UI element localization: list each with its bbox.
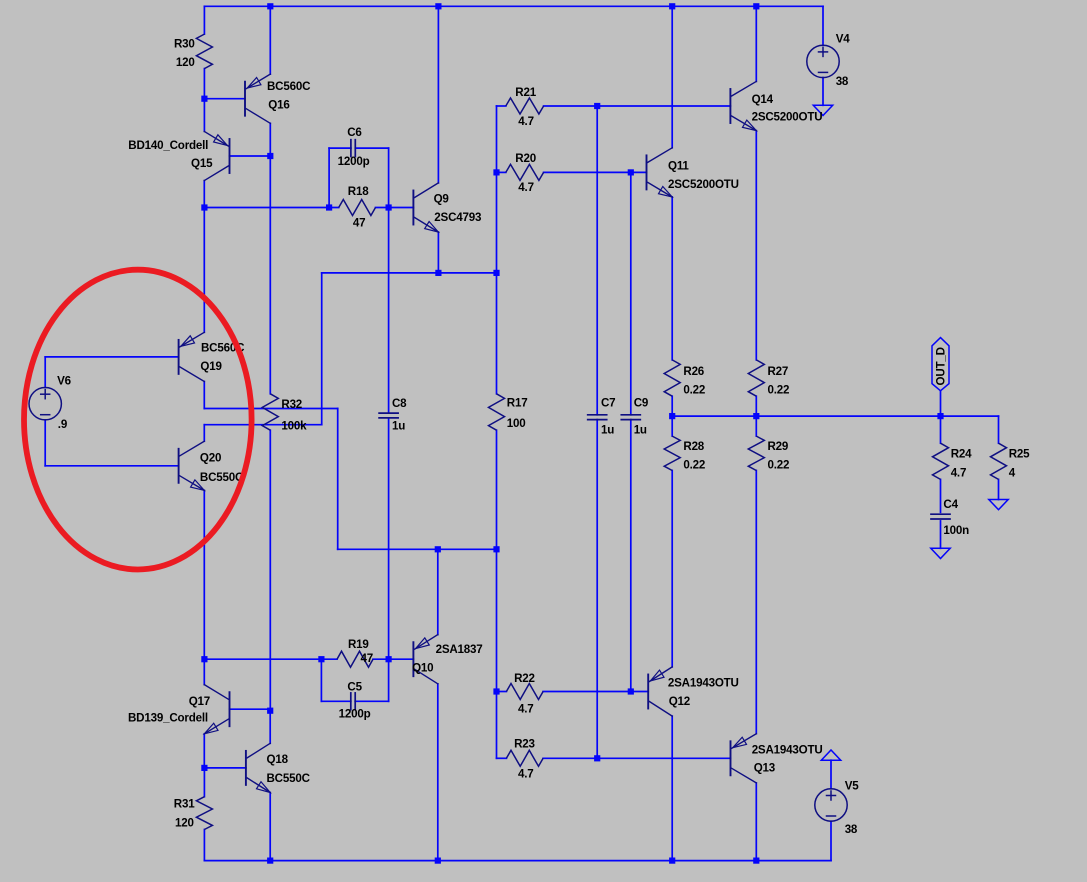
wire x497 vertical upper <box>496 106 498 394</box>
node Q16 collector / Q15 base <box>267 153 273 159</box>
wire Q18 emitter <box>269 793 271 861</box>
svg-text:38: 38 <box>836 75 849 88</box>
wire Q14 collector <box>755 6 757 81</box>
svg-text:2SA1837: 2SA1837 <box>436 643 483 656</box>
wire Q16 collector <box>269 123 271 156</box>
wire Q20 collector <box>203 425 205 442</box>
resistor R32 <box>262 394 278 430</box>
svg-text:1u: 1u <box>392 419 405 432</box>
wire node y659 left <box>204 658 337 660</box>
transistor Q17 (NPN BD139_Cordell) <box>204 685 229 734</box>
svg-text:Q10: Q10 <box>412 662 433 675</box>
svg-text:1u: 1u <box>601 424 614 437</box>
node R32 / Q17 base / Q18 collector <box>267 708 273 714</box>
node bottom rail / Q18 emitter <box>267 858 273 864</box>
resistor R31 <box>196 797 212 830</box>
ground below V4 <box>813 105 832 115</box>
node R27-R29 / output <box>753 413 759 419</box>
svg-text:C5: C5 <box>347 680 362 693</box>
transistor Q20 (NPN BC550C) <box>179 441 205 490</box>
node Q17 emitter / Q18 base / R31 <box>201 765 207 771</box>
capacitor C4 <box>931 513 950 515</box>
wire Q17 collector <box>203 659 205 684</box>
wire V5 bottom <box>830 821 832 860</box>
svg-text:100: 100 <box>507 417 526 430</box>
svg-text:1200p: 1200p <box>338 155 370 168</box>
wire R29 to Q13 collector <box>755 471 757 734</box>
wire Q9 emitter <box>437 232 439 273</box>
wire x322 vertical <box>321 273 323 425</box>
transistor Q11 (NPN 2SC5200OTU) <box>647 148 673 197</box>
svg-text:BC550C: BC550C <box>267 772 311 785</box>
svg-text:4.7: 4.7 <box>518 703 534 716</box>
svg-text:OUT_D: OUT_D <box>934 347 947 385</box>
svg-text:4.7: 4.7 <box>518 181 534 194</box>
svg-text:C4: C4 <box>943 498 958 511</box>
wire C6 right vertical <box>388 148 390 207</box>
resistor R24 <box>933 443 949 479</box>
wire Q17 emitter <box>203 734 205 768</box>
wire Q15 collector <box>203 181 205 208</box>
wire V5 top <box>830 760 832 789</box>
capacitor C7 <box>588 414 607 416</box>
wire C5 left vertical <box>320 659 322 701</box>
wire top rail +38V <box>204 5 823 7</box>
node bottom rail / Q13 emitter <box>753 858 759 864</box>
resistor R22 <box>506 684 543 700</box>
wire Q17 base <box>230 708 271 710</box>
node R19 / C5 left <box>318 656 324 662</box>
svg-text:V6: V6 <box>57 374 72 387</box>
net flag OUT_D <box>932 338 949 391</box>
ground above V5 (flipped) <box>821 750 840 760</box>
svg-text:Q11: Q11 <box>668 159 689 172</box>
wire C6 left vertical <box>328 148 330 207</box>
svg-text:0.22: 0.22 <box>768 384 790 397</box>
wire Q9 collector <box>437 6 439 183</box>
wire node y659 right <box>373 658 413 660</box>
svg-text:BD139_Cordell: BD139_Cordell <box>128 711 208 724</box>
svg-text:R30: R30 <box>174 37 195 50</box>
wire R24 to C4 <box>940 479 942 512</box>
svg-text:0.22: 0.22 <box>683 384 705 397</box>
svg-text:Q12: Q12 <box>669 695 690 708</box>
wire node y273 <box>322 272 497 274</box>
wire C9 top <box>630 172 632 414</box>
wire R30 top <box>203 6 205 34</box>
wire C4 to ground <box>940 521 942 548</box>
svg-text:Q14: Q14 <box>752 93 774 106</box>
wire C6 top left <box>329 147 351 149</box>
node top rail / Q14 collector <box>753 3 759 9</box>
node Q15 collector / main <box>201 204 207 210</box>
svg-text:C7: C7 <box>601 396 615 409</box>
transistor Q12 (PNP 2SA1943OTU) <box>648 667 672 716</box>
svg-text:Q13: Q13 <box>754 762 776 775</box>
wire V4 bottom to ground <box>822 78 824 106</box>
resistor R18 <box>339 200 376 216</box>
wire R20 left <box>497 171 506 173</box>
wire Q19 emitter <box>203 208 205 333</box>
svg-text:R21: R21 <box>515 86 536 99</box>
wire R27-R29 node <box>755 396 757 436</box>
transistor Q9 (NPN 2SC4793) <box>413 183 438 232</box>
node R19 / C5 / C8 / Q10 base <box>386 656 392 662</box>
node y549 / R17 <box>493 546 499 552</box>
wire Q12 emitter <box>671 716 673 861</box>
wire R31 top <box>203 768 205 797</box>
resistor R23 <box>506 750 543 766</box>
wire Q13 emitter <box>755 783 757 861</box>
node OUT_D / R24 <box>937 413 943 419</box>
wire R20 right to Q11 base <box>544 171 647 173</box>
node R21 / C7 <box>594 103 600 109</box>
node bottom rail / Q10 collector <box>435 858 441 864</box>
capacitor C9 <box>621 414 640 416</box>
svg-text:120: 120 <box>175 816 194 829</box>
svg-text:0.22: 0.22 <box>683 459 705 472</box>
svg-text:R22: R22 <box>514 672 535 685</box>
wire R32 bottom <box>269 430 271 711</box>
svg-text:Q15: Q15 <box>191 157 213 170</box>
transistor Q10 (PNP 2SA1837) <box>413 635 437 684</box>
wire Q14 emitter <box>755 131 757 360</box>
svg-text:2SC5200OTU: 2SC5200OTU <box>668 178 739 191</box>
wire R22 left <box>497 691 507 693</box>
capacitor C5 <box>350 693 352 710</box>
svg-text:.9: .9 <box>58 418 68 431</box>
wire x497 vertical lower <box>496 430 498 758</box>
wire C6 top right <box>355 147 388 149</box>
resistor R21 <box>506 98 544 114</box>
svg-text:R20: R20 <box>515 152 536 165</box>
voltage source V6 <box>29 388 61 420</box>
svg-text:R24: R24 <box>951 448 972 461</box>
node R23 / C7 / Q13 base <box>594 755 600 761</box>
svg-text:R29: R29 <box>768 440 789 453</box>
node top rail / Q16 emitter <box>267 3 273 9</box>
wire Q19 collector rail y408 <box>204 408 337 410</box>
svg-text:2SC4793: 2SC4793 <box>434 211 482 224</box>
wire Q11 emitter <box>671 197 673 360</box>
ground below C4 <box>931 548 950 558</box>
transistor Q13 (PNP 2SA1943OTU) <box>731 734 757 783</box>
svg-text:BD140_Cordell: BD140_Cordell <box>128 139 208 152</box>
svg-text:R31: R31 <box>174 798 195 811</box>
svg-text:C8: C8 <box>392 397 407 410</box>
resistor R27 <box>748 360 764 396</box>
wire R21 right to Q14 base <box>544 105 731 107</box>
resistor R25 <box>991 443 1007 479</box>
node C6 / R18 right / Q9 base <box>386 204 392 210</box>
svg-text:R26: R26 <box>683 365 704 378</box>
node R20 / x497 <box>493 169 499 175</box>
svg-text:R23: R23 <box>514 738 535 751</box>
wire R23 left <box>497 757 507 759</box>
svg-text:47: 47 <box>361 652 374 665</box>
wire x338 vertical <box>337 409 339 550</box>
svg-text:C9: C9 <box>634 396 649 409</box>
svg-text:R27: R27 <box>768 365 789 378</box>
svg-text:2SA1943OTU: 2SA1943OTU <box>668 677 739 690</box>
svg-text:0.22: 0.22 <box>768 459 790 472</box>
svg-text:Q19: Q19 <box>200 360 222 373</box>
svg-text:100n: 100n <box>943 524 969 537</box>
svg-text:V4: V4 <box>836 33 851 46</box>
node R20 / C9 <box>628 169 634 175</box>
resistor R30 <box>196 34 212 69</box>
wire C7 top <box>596 106 598 415</box>
transistor Q16 (PNP BC560C) <box>245 74 270 123</box>
wire Q18 base <box>204 767 246 769</box>
wire Q16 emitter <box>269 6 271 74</box>
svg-text:R17: R17 <box>507 396 528 409</box>
node Q9 emitter / y273 <box>435 270 441 276</box>
transistor Q18 (NPN BC550C) <box>246 743 270 792</box>
svg-text:BC560C: BC560C <box>267 80 311 93</box>
svg-text:R28: R28 <box>683 440 704 453</box>
svg-text:120: 120 <box>176 56 195 69</box>
ground below R25 <box>989 500 1008 510</box>
svg-text:4.7: 4.7 <box>951 467 967 480</box>
svg-text:Q9: Q9 <box>434 193 450 206</box>
node R22 / C9 / Q12 base <box>628 688 634 694</box>
wire V6 plus vertical <box>44 357 46 388</box>
wire R32 top <box>269 156 271 394</box>
wire Q10 collector <box>437 684 439 861</box>
wire R28 to Q12 collector <box>671 471 673 667</box>
wire V6 minus vertical <box>44 420 46 466</box>
wire R25 top <box>998 416 1000 443</box>
wire bottom rail -38V <box>204 860 831 862</box>
resistor R20 <box>506 164 544 180</box>
resistor R17 <box>489 394 505 430</box>
wire V4 top stub <box>822 6 824 45</box>
wire node y549 <box>338 548 497 550</box>
red annotation ellipse around V6/Q19/Q20 input stage <box>24 270 252 570</box>
wire Q20 emitter <box>203 490 205 659</box>
wire R31 bottom <box>203 830 205 861</box>
svg-text:4.7: 4.7 <box>518 115 534 128</box>
svg-text:1200p: 1200p <box>339 708 371 721</box>
wire C5 bottom left <box>321 700 350 702</box>
wire Q16 base <box>204 98 245 100</box>
svg-text:R19: R19 <box>348 638 369 651</box>
svg-text:47: 47 <box>353 217 366 230</box>
wire Q11 collector <box>671 6 673 148</box>
wire Q19 collector <box>203 382 205 409</box>
svg-text:2SC5200OTU: 2SC5200OTU <box>752 111 823 124</box>
wire R30 bottom to Q15 emitter <box>203 69 205 132</box>
wire main node y207 right <box>376 207 414 209</box>
svg-text:BC550C: BC550C <box>200 471 244 484</box>
node Q20 emitter / R19 <box>201 656 207 662</box>
svg-text:2SA1943OTU: 2SA1943OTU <box>752 743 823 756</box>
node top rail / Q9 collector <box>435 3 441 9</box>
node C6 / R18 left <box>326 204 332 210</box>
resistor R19 <box>337 651 373 667</box>
svg-text:4: 4 <box>1009 467 1016 480</box>
svg-text:1u: 1u <box>634 424 647 437</box>
capacitor C6 <box>350 140 352 157</box>
resistor R26 <box>664 360 680 396</box>
svg-text:100k: 100k <box>281 420 307 433</box>
capacitor C8 <box>379 412 398 414</box>
wire main node y207 left <box>204 207 338 209</box>
wire OUT_D stub <box>940 391 942 416</box>
wire R26-R28 node <box>671 396 673 436</box>
wire R24 top <box>940 416 942 443</box>
wire R21 left <box>497 105 506 107</box>
node R22 / x497 <box>493 688 499 694</box>
node R26-R28 / output <box>669 413 675 419</box>
wire C8 bottom <box>388 418 390 659</box>
voltage source V4 <box>807 45 839 77</box>
wire C5 bottom right <box>355 700 388 702</box>
node top rail / Q11 collector <box>669 3 675 9</box>
svg-text:R25: R25 <box>1009 448 1030 461</box>
svg-text:Q16: Q16 <box>268 99 290 112</box>
wire Q15 base <box>230 155 271 157</box>
node bottom rail / Q12 emitter <box>669 858 675 864</box>
voltage source V5 <box>815 789 847 821</box>
wire Q10 emitter <box>437 549 439 634</box>
svg-text:38: 38 <box>845 823 858 836</box>
node y549 / Q10 emitter <box>435 546 441 552</box>
transistor Q19 (PNP BC560C) <box>179 332 205 381</box>
wire output node y416 <box>672 415 998 417</box>
svg-text:C6: C6 <box>347 126 362 139</box>
resistor R28 <box>664 436 680 470</box>
svg-text:4.7: 4.7 <box>518 768 534 781</box>
wire R23 right to Q13 base <box>543 757 730 759</box>
svg-text:Q20: Q20 <box>200 452 221 465</box>
node y273 / x497 <box>493 270 499 276</box>
transistor Q14 (NPN 2SC5200OTU) <box>730 81 756 130</box>
svg-text:Q17: Q17 <box>189 695 210 708</box>
svg-text:Q18: Q18 <box>267 753 289 766</box>
wire R22 right to Q12 base <box>543 691 648 693</box>
wire C8 top <box>388 208 390 414</box>
wire C9 bottom <box>630 420 632 692</box>
wire Q20 base from V6 <box>45 465 178 467</box>
svg-text:V5: V5 <box>845 780 860 793</box>
wire C7 bottom <box>596 420 598 759</box>
svg-text:R18: R18 <box>348 185 369 198</box>
wire Q19 base from V6 <box>45 356 178 358</box>
svg-text:R32: R32 <box>281 398 302 411</box>
wire C5 right vertical <box>388 659 390 701</box>
wire Q18 collector <box>269 711 271 744</box>
resistor R29 <box>748 436 764 470</box>
transistor Q15 (PNP BD140_Cordell) <box>204 131 229 180</box>
wire Q20 collector rail y425 <box>204 424 321 426</box>
node R30 / Q16 base <box>201 96 207 102</box>
wire R25 bottom <box>998 479 1000 499</box>
